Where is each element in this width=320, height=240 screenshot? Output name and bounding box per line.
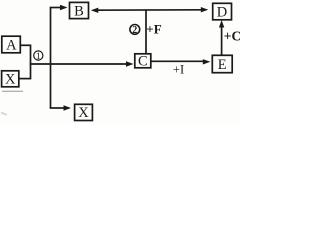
wire feed to X lower (50, 107, 65, 109)
arrow into X lower (64, 105, 72, 110)
svg-text:2: 2 (132, 25, 137, 36)
svg-text:+F: +F (146, 21, 161, 36)
arrow into D bottom (219, 20, 224, 28)
wire X upper stub (19, 78, 30, 80)
svg-text:X: X (5, 72, 16, 88)
box D (213, 3, 232, 20)
box C (135, 54, 151, 70)
svg-text:A: A (6, 37, 17, 53)
box E (212, 55, 232, 73)
svg-text:E: E (218, 57, 227, 73)
box A (2, 36, 21, 53)
wire main horizontal to C (30, 63, 127, 65)
wire top line B to D (96, 9, 202, 11)
svg-text:X: X (78, 105, 89, 121)
arrow into B right (91, 8, 99, 13)
svg-text:+C: +C (224, 29, 240, 44)
wire main vertical riser (50, 8, 52, 109)
wire faint gray scan mark (2, 90, 23, 92)
wire E to D (221, 26, 223, 56)
svg-text:C: C (138, 54, 148, 70)
box X lower (75, 104, 93, 121)
arrow into D left (201, 7, 209, 12)
junction circle 1 (34, 51, 43, 62)
wire drop from top line to C (145, 10, 147, 53)
svg-text:+I: +I (173, 63, 184, 77)
arrow into E (203, 59, 211, 64)
svg-text:B: B (74, 3, 84, 19)
arrow into C (126, 61, 134, 66)
box B (70, 2, 89, 19)
junction circle 2 (130, 25, 140, 37)
wire C to E (151, 60, 204, 62)
box X upper (2, 71, 19, 88)
wire bracket vertical (30, 45, 32, 80)
arrow into B left (60, 5, 68, 10)
wire feed to B (50, 7, 61, 9)
svg-text:D: D (217, 4, 227, 20)
wire A stub (21, 44, 31, 46)
svg-text:1: 1 (36, 52, 41, 62)
